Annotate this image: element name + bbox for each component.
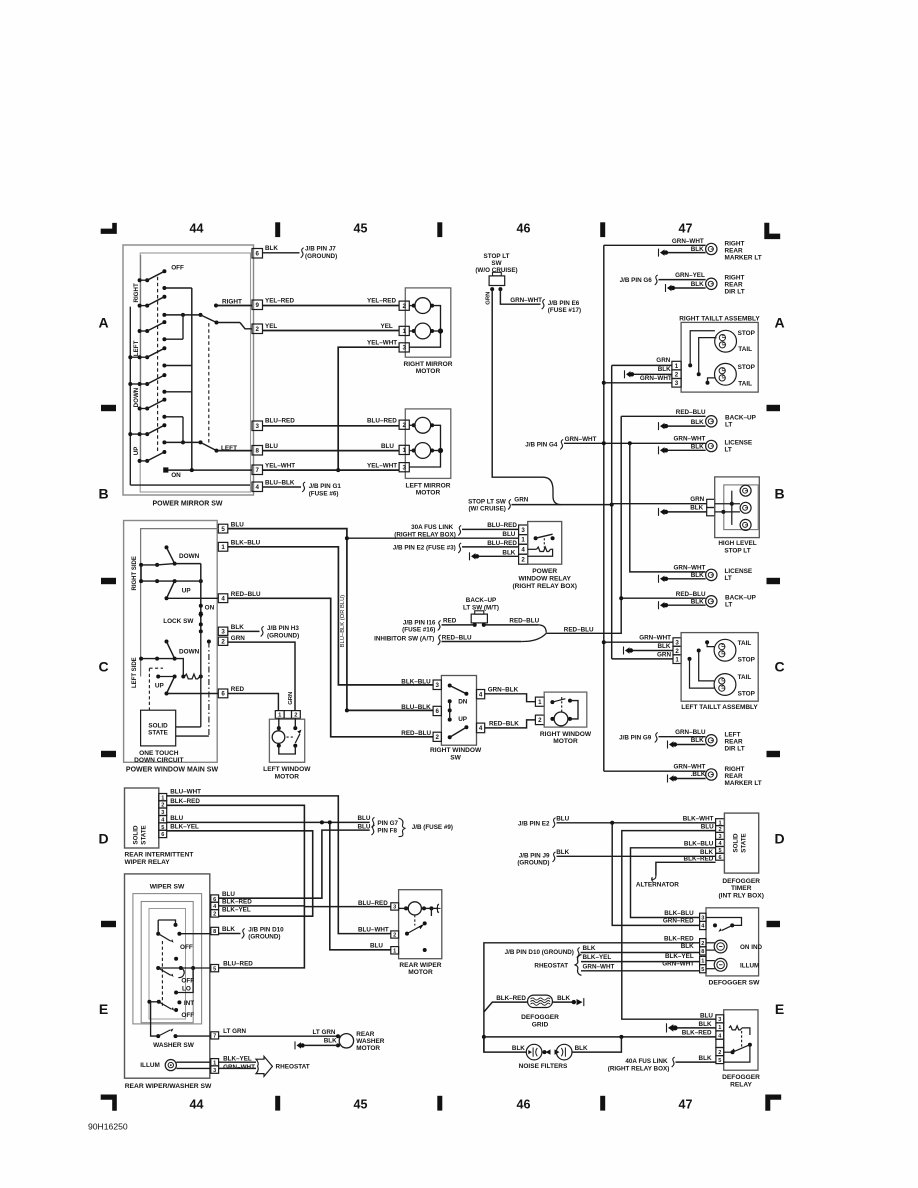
wire BLK-YEL illum to pin 1 [176,1061,210,1063]
power mirror switch pin 9 [252,300,263,310]
svg-text:7: 7 [213,1034,216,1040]
svg-text:UP: UP [458,716,468,723]
ground arrow right rear marker [658,249,660,257]
connector J/B PIN J7 (GROUND) [301,248,304,258]
power mirror switch pin 4 [252,482,263,492]
svg-text:6: 6 [436,708,440,715]
power window main sw internal: lock vertical to solid state [200,631,202,727]
svg-text:BLK: BLK [512,1045,525,1052]
svg-text:46: 46 [517,1098,531,1112]
svg-text:BLK: BLK [691,598,704,605]
svg-text:2: 2 [256,326,260,333]
svg-text:BLK: BLK [691,419,704,426]
bus GRN-WHT branch to lower license lt [630,443,706,572]
svg-text:TAIL: TAIL [738,381,752,388]
power window main switch pin 1 [218,542,228,551]
svg-text:RIGHT WINDOW: RIGHT WINDOW [540,731,592,738]
rear wiper motor pin 1 [391,947,399,954]
rheostat connector arrow [256,1056,272,1076]
svg-text:4: 4 [256,484,260,491]
right window sw pin 2 [433,732,441,741]
svg-text:BLK: BLK [681,943,694,950]
svg-text:BLK–RED: BLK–RED [170,798,200,805]
defogger sw pin 3 [700,913,706,921]
svg-text:GRN: GRN [657,652,671,659]
svg-text:SOLID: SOLID [148,722,168,729]
wire BLK-BLU from power window main sw pin 1 [228,547,433,685]
svg-text:BLU: BLU [222,891,235,898]
left window motor pin 2 [292,711,301,719]
power mirror switch LEFT output wire [217,450,253,452]
right mirror motor winding M1 [415,298,431,314]
wire GRN to left taillt pin 1 [612,658,673,660]
wire BLU-RED 30A fus link to relay pin 3 [462,528,519,530]
svg-text:40A FUS LINK: 40A FUS LINK [625,1058,668,1065]
svg-text:3: 3 [402,345,406,352]
svg-text:RIGHT: RIGHT [725,240,745,247]
svg-text:6: 6 [718,855,721,861]
ground arrow back-up upper [658,422,660,430]
power window relay internal coil [537,547,551,551]
power window relay pin 1 [519,535,528,545]
high level stop lt connector boxes [707,499,715,507]
junction dot BLU/defogger bus [610,821,614,825]
svg-text:BLU–RED: BLU–RED [367,418,397,425]
defogger sw ON IND wires [706,942,715,944]
grid tick bottom 44/45 [275,1096,280,1111]
wire BLU from power window main sw pin 5 [228,529,347,711]
wiper relay pin 4 [159,816,167,823]
svg-text:REAR WIPER/WASHER SW: REAR WIPER/WASHER SW [125,1083,212,1090]
svg-text:(GROUND): (GROUND) [305,253,337,260]
right mirror motor pin 2 [399,301,409,310]
right mirror motor pin 3 [399,343,409,352]
wire BLU J/B E2 to defogger timer pin 1 [557,822,716,824]
wire RED-BLU from power window main sw pin 4 [228,598,433,737]
left taillt pin 2 [673,646,681,655]
svg-text:BLK–YEL: BLK–YEL [170,823,199,830]
svg-text:GRN: GRN [486,292,492,305]
svg-text:RHEOSTAT: RHEOSTAT [276,1063,310,1070]
power mirror switch contact row 3 [138,304,142,308]
wire grid net to defogger relay pin 4 [484,1036,716,1038]
wiper sw pin 3 [211,1066,219,1073]
ground arrow back-up lower [658,601,660,609]
ground arrow left taillt pin 2 [623,647,625,655]
junction dot BLU to 30A fus link [345,536,349,540]
back-up lt sw symbol [475,611,484,614]
defogger timer pin 4 [716,839,725,846]
bus GRN vertical (x~612) [611,365,613,659]
svg-text:BLK: BLK [699,1055,712,1062]
wire merge brace of back-up / inhibitor wires [521,625,546,642]
svg-text:GRN–WHT: GRN–WHT [674,764,706,771]
svg-text:(GROUND): (GROUND) [267,633,299,640]
noise filter 2 [556,1044,572,1060]
defogger sw internal switch [713,923,717,927]
defogger sw pin 1 [700,956,706,964]
power mirror switch outer box [123,245,254,495]
left taillt bulb upper (tail/stop) [714,639,736,661]
grid tick left margin [101,751,116,757]
svg-text:1: 1 [402,328,406,335]
right rear dir lt bulb [706,278,717,289]
svg-text:B: B [774,486,784,502]
power mirror switch contact row 7 [162,364,166,368]
svg-text:BLU: BLU [556,815,569,822]
rear wiper/washer sw outer box [125,874,210,1078]
power mirror switch inner box [140,253,250,492]
defogger relay internal coil [729,1026,742,1030]
wiper sw inner box 2 [141,902,193,1023]
grid tick top 45/46 [437,222,442,237]
wiper sw pin 2 [211,910,219,918]
grid corner bracket bottom-left [101,1095,117,1111]
svg-text:REAR: REAR [725,281,743,288]
svg-text:MARKER LT: MARKER LT [725,780,762,787]
wire GRN-WHT rheostat to defogger sw pin 5 [581,970,700,972]
svg-text:SOLID: SOLID [733,833,740,852]
connector J/B PIN G1 (FUSE #6) [302,482,305,492]
high level stop lt bulb 1 [740,485,751,496]
ground arrow defogger relay pin 1 [666,1023,668,1032]
svg-text:2: 2 [221,638,225,645]
svg-text:TAIL: TAIL [738,674,752,681]
svg-text:BLU: BLU [700,1012,713,1019]
svg-text:RED–BLU: RED–BLU [231,591,261,598]
right taillt internal wiring [688,363,692,367]
svg-text:GRN–WHT: GRN–WHT [583,963,615,970]
ground arrow defogger grid (right-pointing) [572,1000,576,1004]
grid tick bottom 46/47 [600,1096,605,1111]
svg-text:YEL–WHT: YEL–WHT [367,340,397,347]
wiper sw pin 4 [211,902,219,909]
svg-text:DEFOGGER: DEFOGGER [722,878,760,885]
svg-text:LT GRN: LT GRN [313,1029,336,1036]
svg-text:STOP LT SW: STOP LT SW [468,498,506,505]
svg-text:DEFOGGER: DEFOGGER [521,1014,559,1021]
wire BLK to defogger relay pin 1 [677,1027,716,1029]
svg-text:BLK–BLU: BLK–BLU [401,678,431,685]
svg-text:BLK: BLK [575,1045,588,1052]
wire GRN-WHT J/B G4 to license lt [564,442,706,444]
high level stop lt internal wires [730,502,734,506]
svg-text:BLK: BLK [556,849,569,856]
wire BLK-YEL rheostat to defogger sw pin 1 [581,961,700,963]
svg-text:GRN: GRN [656,357,670,364]
svg-text:RED–BLU: RED–BLU [509,617,539,624]
right window motor box [544,692,587,727]
wire BLU wiper relay pin 4 to J/B PIN G7 [167,821,370,823]
grid tick top 44/45 [275,222,280,237]
power window main sw internal: lock switch contacts [200,564,202,632]
bus wire to defogger sw pin 4 (GRN-RED) [612,823,699,926]
wire RED-BLU from inhibitor sw [442,641,522,643]
svg-text:C: C [774,659,784,675]
grid tick right margin [767,751,781,757]
svg-text:3: 3 [675,639,679,646]
power mirror switch contact row 9 [162,390,166,394]
right window sw internal center contacts [448,699,452,703]
right mirror motor internal wires [409,305,415,307]
wiper sw internal: LO link [174,991,178,995]
defogger sw ON IND bulb [714,940,727,953]
power mirror switch contact row 12 (UP) [128,432,132,436]
svg-text:J/B PIN G6: J/B PIN G6 [620,277,653,284]
left rear dir lt bulb [706,735,717,746]
svg-text:BLK–WHT: BLK–WHT [683,815,714,822]
grid corner bracket top-left [101,223,117,234]
svg-text:2: 2 [675,648,679,655]
power mirror switch contact row 1 (OFF) [138,278,142,282]
junction dot RED-BLU bus to lower back-up lt [619,596,623,600]
ground arrow right rear dir [665,284,667,292]
svg-text:MOTOR: MOTOR [356,1045,380,1052]
svg-text:BLK: BLK [502,550,515,557]
svg-text:BLK–YEL: BLK–YEL [665,953,694,960]
right rear marker lt bulb [706,243,717,254]
svg-text:UP: UP [133,447,140,456]
grid tick left margin [101,405,116,411]
svg-text:3: 3 [436,682,440,689]
svg-text:RED: RED [443,617,457,624]
svg-text:PIN F8: PIN F8 [377,828,397,835]
svg-text:POWER: POWER [532,568,557,575]
svg-text:BACK–UP: BACK–UP [466,597,496,604]
wire BLK from defogger grid to ground [552,1001,573,1003]
svg-text:RED–BLU: RED–BLU [564,626,594,633]
defogger timer box [724,813,758,873]
right taillt bulb upper (stop/tail) [715,330,737,352]
left mirror motor box [405,409,451,479]
svg-text:REAR: REAR [725,247,743,254]
svg-text:RIGHT: RIGHT [725,766,745,773]
svg-text:A: A [774,315,784,331]
left window motor armature [272,731,285,744]
svg-text:GRN–BLU: GRN–BLU [675,729,706,736]
svg-text:J/B PIN E6: J/B PIN E6 [548,300,580,307]
svg-text:BLK–YEL: BLK–YEL [222,906,251,913]
grid tick left margin [101,921,116,927]
svg-text:GRN–WHT: GRN–WHT [640,375,672,382]
wire BLK high level stop [668,511,707,513]
power window main switch pin 4 [218,594,228,603]
wire BLU power mirror pin 8 to left mirror motor pin 1 [263,450,400,452]
svg-text:GRN: GRN [690,496,704,503]
svg-text:RHEOSTAT: RHEOSTAT [534,963,568,970]
wiper sw pin 8 [211,927,219,934]
svg-text:LEFT SIDE: LEFT SIDE [132,657,138,688]
svg-text:8: 8 [256,447,260,454]
svg-text:WASHER SW: WASHER SW [153,1042,195,1049]
defogger relay internal switch [731,1050,735,1054]
power mirror switch contact row 6 (LEFT side) [128,355,132,359]
svg-text:DOWN CIRCUIT: DOWN CIRCUIT [134,757,183,764]
left mirror motor pin 2 [399,420,409,429]
wire RED from power window main sw pin 6 [228,694,279,711]
wire GRN-BLK rw sw to right window motor pin 1 [485,694,536,702]
svg-text:LT: LT [725,602,732,609]
svg-text:MARKER LT: MARKER LT [725,254,762,261]
svg-text:5: 5 [718,1058,721,1064]
svg-text:BLK: BLK [222,926,235,933]
wire RED-BLU to back-up lt lower [621,597,705,599]
rear washer motor body [339,1034,353,1048]
ground arrow left rear dir [667,741,669,749]
svg-text:ILLUM: ILLUM [740,962,759,969]
svg-text:INHIBITOR SW (A/T): INHIBITOR SW (A/T) [374,636,434,643]
ground arrow marker lower [667,775,669,783]
right window sw pin 6 [433,706,441,715]
svg-text:LEFT: LEFT [725,731,741,738]
wire BLK to defogger sw pin 8 [581,952,700,954]
svg-text:BLU: BLU [231,521,244,528]
svg-text:BLK: BLK [265,245,278,252]
wire BLK license lower [668,578,706,580]
svg-text:1: 1 [402,447,406,454]
left mirror motor pin 3 [399,463,409,472]
wire BLU-RED power mirror pin 3 to left mirror motor pin 2 [263,425,400,427]
wire BLK wiper sw pin 8 to ground [219,933,241,935]
left mirror motor internal wires [409,424,415,426]
svg-text:J/B PIN H3: J/B PIN H3 [267,625,299,632]
svg-text:2: 2 [675,371,679,378]
power mirror switch pin 2 [252,324,263,334]
svg-text:30A FUS LINK: 30A FUS LINK [411,524,454,531]
svg-text:3: 3 [221,628,225,635]
svg-text:POWER MIRROR SW: POWER MIRROR SW [153,501,223,508]
defogger timer pin 6 [716,853,725,860]
back-up lt upper bulb [706,416,717,427]
wire BLK-YEL wiper relay pin 5 to wiper sw pin 2 [167,831,313,916]
svg-text:8: 8 [701,949,704,955]
wire GRN-WHT to left taillt pin 3 [604,641,673,643]
ground arrow right taillt pin 2 [624,370,626,378]
power window main switch pin 5 [218,524,228,533]
svg-text:7: 7 [256,467,260,474]
right window motor armature [554,712,568,726]
defogger sw pin 4 [700,921,706,929]
high level stop lt bulb 3 [740,519,751,530]
svg-text:ON: ON [171,472,181,479]
svg-text:BLK–YEL: BLK–YEL [223,1055,252,1062]
power window main switch pin 6 [218,689,228,698]
svg-text:1: 1 [718,1025,721,1031]
svg-text:BLU: BLU [265,443,278,450]
wiper sw pin 6 [211,895,219,902]
power window main sw internal: right UP contact [140,565,142,581]
wire BLK back-up lower [668,604,706,606]
svg-text:2: 2 [393,933,396,939]
svg-text:J/B PIN D10: J/B PIN D10 [248,926,284,933]
left window motor bottom link [279,746,296,754]
alternator hook symbol [652,876,656,882]
svg-text:J/B (FUSE #9): J/B (FUSE #9) [412,824,453,831]
svg-text:YEL–WHT: YEL–WHT [367,462,397,469]
svg-text:UP: UP [182,588,192,595]
power window main sw internal: one-touch resistor [181,675,185,679]
wire RED-BLK rw sw to right window motor pin 2 [485,720,536,728]
svg-text:BLK–BLU: BLK–BLU [231,539,261,546]
svg-text:MOTOR: MOTOR [275,773,300,780]
svg-text:DN: DN [458,698,468,705]
power mirror switch contact row 10 [138,407,142,411]
left window motor box [269,719,304,762]
right rear marker lt lower bulb [706,769,717,780]
right mirror motor pin 1 [399,326,409,335]
svg-text:LT: LT [725,575,732,582]
connector J/B PIN E6 (FUSE #17) [542,299,545,309]
junction dot grid net [482,1035,486,1039]
svg-text:DIR LT: DIR LT [725,288,745,295]
svg-text:BLK–RED: BLK–RED [684,855,714,862]
svg-text:2: 2 [294,713,297,719]
svg-text:STOP LT: STOP LT [484,253,510,260]
wiper relay pin 2 [159,801,167,808]
svg-text:5: 5 [221,526,225,533]
svg-text:A: A [98,315,108,331]
svg-text:J/B PIN J7: J/B PIN J7 [305,246,336,253]
svg-text:4: 4 [521,546,525,553]
wiper sw pin 7 [211,1032,219,1039]
defogger relay pin 5 [716,1056,724,1064]
svg-text:(GROUND): (GROUND) [517,860,549,867]
wire GRN stop lt sw (w/cruise) to GRN bus [512,504,612,506]
svg-text:2: 2 [402,303,406,310]
right mirror motor box [405,288,451,357]
svg-text:RED–BLK: RED–BLK [489,720,519,727]
wire from noise filter 2 to bus [572,1037,621,1052]
defogger relay pin 4 [716,1031,724,1039]
wire GRN-WHT from stop lt sw to J/B PIN E6 [500,289,540,304]
grid tick right margin [767,578,781,584]
wire GRN-WHT bus to lower right rear marker lt [604,770,706,772]
power mirror switch internal: dashed selector line 2 [208,323,210,444]
wiper sw internal: mid contacts OFF/LO [156,966,160,970]
wiper relay pin 6 [159,830,167,837]
svg-text:6: 6 [161,832,164,838]
bus GRN-WHT vertical (x~604) [603,245,605,771]
wire RED to back-up lt sw [442,624,475,626]
grid tick bottom 45/46 [437,1096,442,1111]
left taillt internal wiring [705,640,709,644]
svg-text:3: 3 [402,464,406,471]
wire BLK marker lower [677,778,706,780]
svg-text:BLU: BLU [370,943,383,950]
svg-text:GRN–WHT: GRN–WHT [674,436,706,443]
svg-text:RIGHT WINDOW: RIGHT WINDOW [430,747,482,754]
defogger sw pin 5 [700,965,706,973]
power mirror switch contact row 14 [138,459,142,463]
svg-text:BACK–UP: BACK–UP [725,595,757,602]
left taillt assembly box [681,633,758,702]
svg-text:ALTERNATOR: ALTERNATOR [636,882,679,889]
svg-text:DOWN: DOWN [133,387,140,407]
svg-text:6: 6 [256,250,260,257]
power mirror switch pin 6 [252,249,263,259]
svg-text:4: 4 [479,725,483,732]
rear wiper motor armature [408,902,421,915]
defogger relay blank pin [716,1039,724,1047]
connector J/B PIN H3 (GROUND) [261,626,264,636]
svg-text:45: 45 [354,222,368,236]
power mirror switch pin 7 [252,465,263,475]
svg-text:STATE: STATE [148,730,168,737]
svg-text:BLK: BLK [324,1038,337,1045]
power window main sw internal: solid state box [141,710,176,746]
svg-text:(RIGHT RELAY BOX): (RIGHT RELAY BOX) [608,1065,670,1072]
rear wiper motor pin 3 [391,903,399,910]
